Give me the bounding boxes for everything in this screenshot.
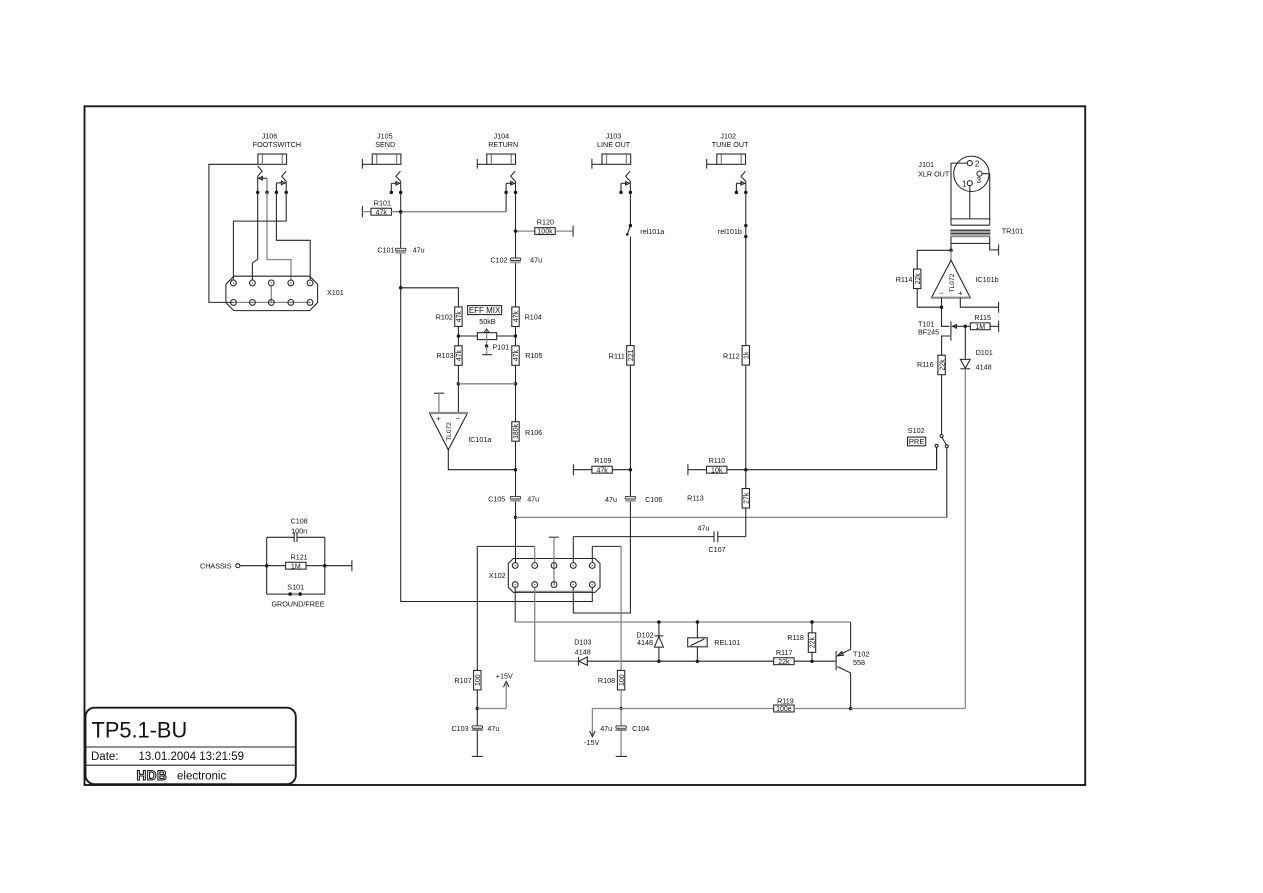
svg-text:27k: 27k xyxy=(744,492,751,504)
svg-text:C101: C101 xyxy=(377,245,394,254)
svg-text:100n: 100n xyxy=(291,527,307,536)
svg-text:PRE: PRE xyxy=(909,437,925,446)
wire rel101b to R112 xyxy=(745,237,747,346)
switch J106 tip contact xyxy=(258,166,263,176)
wire IC101b inverting input down xyxy=(941,298,943,308)
junction R118 bottom xyxy=(810,659,814,663)
wire feedback to R114 xyxy=(917,250,951,269)
svg-text:TL072: TL072 xyxy=(446,422,453,441)
svg-text:47u: 47u xyxy=(600,724,612,733)
transformer TR101 secondary xyxy=(951,236,990,243)
connector J101 XLR body xyxy=(954,156,989,191)
svg-text:SEND: SEND xyxy=(375,140,395,149)
wire -15V rail to D101 column xyxy=(851,708,966,710)
svg-text:rel101a: rel101a xyxy=(640,227,664,236)
junction R118 top xyxy=(810,620,814,624)
svg-text:HDB: HDB xyxy=(137,768,168,783)
svg-text:XLR OUT: XLR OUT xyxy=(918,170,950,179)
X102 pins xyxy=(512,563,518,569)
wire C106 to X102 pin 4 xyxy=(573,502,630,613)
svg-text:rel101b: rel101b xyxy=(718,227,742,236)
junction node I xyxy=(514,468,518,472)
svg-text:−: − xyxy=(939,289,944,298)
svg-text:47u: 47u xyxy=(413,245,425,254)
wire D101 down to -15V rail xyxy=(964,369,966,709)
jack J106 xyxy=(258,154,287,164)
XLR housing left xyxy=(950,163,952,219)
wire chassis to ground tick xyxy=(325,565,352,567)
svg-text:C103: C103 xyxy=(451,724,468,733)
wire R113 down to C107 line xyxy=(745,508,747,537)
svg-text:3: 3 xyxy=(976,176,981,185)
svg-text:47k: 47k xyxy=(513,311,520,323)
svg-text:FOOTSWITCH: FOOTSWITCH xyxy=(253,140,301,149)
wire node K to S102 left contact xyxy=(746,469,937,471)
wire C101 to node C xyxy=(400,254,402,288)
svg-text:TR101: TR101 xyxy=(1002,227,1024,236)
wire X102 pin 7 down to D103 xyxy=(535,588,579,662)
svg-text:22k: 22k xyxy=(778,659,790,666)
wire D103 to D102/REL101/R117 xyxy=(587,660,774,662)
wire node L to S102 xyxy=(516,516,947,518)
svg-text:100: 100 xyxy=(475,674,482,686)
connector X102 body xyxy=(508,559,600,593)
junction R120/J104 xyxy=(514,229,518,233)
potentiometer P101 50kB xyxy=(458,335,477,337)
svg-text:R118: R118 xyxy=(787,633,804,642)
svg-text:TUNE OUT: TUNE OUT xyxy=(712,140,749,149)
svg-text:S102: S102 xyxy=(908,426,925,435)
svg-text:IC101a: IC101a xyxy=(468,435,491,444)
wire X101 bottom bus xyxy=(233,301,310,303)
svg-text:47k: 47k xyxy=(596,467,608,474)
junction chassis left xyxy=(265,564,269,568)
svg-text:47k: 47k xyxy=(513,349,520,361)
wire X102 bottom bus xyxy=(515,590,592,592)
svg-text:47u: 47u xyxy=(530,256,542,265)
svg-text:D103: D103 xyxy=(574,637,591,646)
svg-text:R102: R102 xyxy=(436,312,453,321)
svg-text:R101: R101 xyxy=(374,199,391,208)
op-amp IC101a TL072 xyxy=(429,413,467,450)
relay supply rail xyxy=(515,621,850,623)
junction node G xyxy=(457,382,461,386)
switch J102 contact xyxy=(741,171,746,181)
junction R101/J105 xyxy=(399,210,403,214)
svg-text:R121: R121 xyxy=(291,552,308,561)
page border frame xyxy=(85,106,1086,785)
junction inverting node xyxy=(940,305,944,309)
svg-text:47u: 47u xyxy=(698,523,710,532)
svg-text:47u: 47u xyxy=(605,495,617,504)
svg-text:R111: R111 xyxy=(609,351,625,360)
wire SEND column down to X102 pin 10 xyxy=(401,288,593,602)
svg-text:-15V: -15V xyxy=(584,738,599,747)
wire T101 source to R116 xyxy=(942,336,950,355)
svg-text:IC101b: IC101b xyxy=(975,275,998,284)
wire rel101a to R111 xyxy=(629,237,631,346)
svg-text:RETURN: RETURN xyxy=(488,140,518,149)
power +15V arrow xyxy=(477,708,506,710)
transformer TR101 primary xyxy=(951,218,990,220)
svg-text:R104: R104 xyxy=(525,312,542,321)
wire R116 to S102 xyxy=(941,375,943,435)
junction node J xyxy=(629,468,633,472)
svg-text:180k: 180k xyxy=(513,423,520,438)
svg-text:Date:: Date: xyxy=(91,751,119,763)
svg-text:R110: R110 xyxy=(709,456,726,465)
svg-text:+15V: +15V xyxy=(496,671,513,680)
wire C102 to R104 xyxy=(515,263,517,307)
svg-text:1M: 1M xyxy=(975,324,985,331)
svg-text:J101: J101 xyxy=(918,160,934,169)
svg-text:X102: X102 xyxy=(489,571,506,580)
rail stub above IC101a non-inverting input xyxy=(434,392,444,394)
svg-text:LINE OUT: LINE OUT xyxy=(597,140,631,149)
ground stub above X102 pin 3 xyxy=(549,536,559,538)
wire TR101 secondary left to feedback node xyxy=(950,243,952,250)
svg-text:558: 558 xyxy=(853,658,865,667)
svg-text:47k: 47k xyxy=(456,311,463,323)
svg-text:TL072: TL072 xyxy=(949,273,956,292)
junction R108 bottom xyxy=(619,707,623,711)
svg-text:EFF MIX: EFF MIX xyxy=(469,306,501,315)
junction TR101/IC101b output xyxy=(949,249,953,253)
svg-text:100: 100 xyxy=(619,674,626,686)
junction R107 bottom xyxy=(476,707,480,711)
svg-text:+: + xyxy=(958,289,963,298)
wire node C to R102 xyxy=(401,288,459,307)
wire X101 pin 3 link xyxy=(270,286,272,303)
svg-text:47k: 47k xyxy=(376,209,388,216)
svg-text:100k: 100k xyxy=(537,229,553,236)
jack J102 xyxy=(706,159,708,169)
wire J106 contact 4 to X101 pin 1 xyxy=(233,192,286,280)
svg-text:electronic: electronic xyxy=(177,771,226,783)
svg-text:S101: S101 xyxy=(287,583,304,592)
wire J103 down to rel101a xyxy=(629,194,631,226)
svg-text:GROUND/FREE: GROUND/FREE xyxy=(271,600,324,609)
wire J105 tip down to R101 node xyxy=(400,194,402,212)
ground below C104 xyxy=(620,731,622,757)
svg-text:D101: D101 xyxy=(976,348,993,357)
svg-text:R117: R117 xyxy=(776,648,793,657)
wire X102 pin 6 down to relay rail xyxy=(514,588,516,622)
svg-text:22k: 22k xyxy=(810,636,817,648)
junction D102 bottom xyxy=(657,659,661,663)
svg-text:4148: 4148 xyxy=(976,363,992,372)
chassis network right branch xyxy=(324,537,326,594)
jack J104 xyxy=(476,159,478,169)
connector X101 body xyxy=(226,276,318,310)
svg-text:47u: 47u xyxy=(487,724,499,733)
junction node K xyxy=(744,468,748,472)
svg-text:R119: R119 xyxy=(777,697,794,706)
wire R103 down to node G xyxy=(457,365,459,384)
junction T102 emitter on -15V rail xyxy=(849,707,853,711)
svg-text:R105: R105 xyxy=(525,351,542,360)
svg-text:22k: 22k xyxy=(939,359,946,371)
svg-text:C102: C102 xyxy=(490,256,507,265)
svg-text:4148: 4148 xyxy=(637,638,653,647)
svg-text:22k: 22k xyxy=(915,273,922,285)
svg-text:R109: R109 xyxy=(594,456,611,465)
junction D102 top xyxy=(657,620,661,624)
svg-text:100e: 100e xyxy=(776,706,792,713)
wire link G-H xyxy=(458,383,515,385)
wire C105 to node L xyxy=(515,502,517,518)
junction T101 drain node xyxy=(964,325,968,329)
svg-text:47u: 47u xyxy=(527,495,539,504)
wire J102 down to rel101b xyxy=(745,194,747,226)
svg-text:C105: C105 xyxy=(488,495,505,504)
junction node H xyxy=(514,382,518,386)
svg-text:1: 1 xyxy=(962,180,967,189)
svg-text:2: 2 xyxy=(975,159,980,168)
svg-text:13.01.2004 13:21:59: 13.01.2004 13:21:59 xyxy=(139,751,245,763)
jack J105 xyxy=(361,159,363,169)
title block frame xyxy=(86,708,296,785)
wire J104 tip down xyxy=(515,194,517,231)
wire R106 to node I xyxy=(515,441,517,470)
junction chassis right xyxy=(323,564,327,568)
relay contact rel101a xyxy=(629,224,632,227)
junction REL101 top xyxy=(696,620,700,624)
svg-text:REL101: REL101 xyxy=(714,638,740,647)
junction node E xyxy=(514,334,518,338)
jack J103 xyxy=(591,159,593,169)
wire R107 to X102 pin 2 xyxy=(477,545,534,547)
label EFF MIX xyxy=(468,306,502,315)
svg-text:1k: 1k xyxy=(744,351,751,359)
wire node L to X102 pin 1 xyxy=(515,517,517,562)
wire R112 to node K xyxy=(745,365,747,469)
svg-text:R116: R116 xyxy=(917,360,934,369)
svg-text:R113: R113 xyxy=(687,494,704,503)
svg-text:50kB: 50kB xyxy=(479,317,496,326)
op-amp IC101b TL072 xyxy=(950,250,952,260)
switch J106 ring contact xyxy=(282,171,287,181)
junction node C xyxy=(399,286,403,290)
transformer TR101 core xyxy=(950,230,990,232)
junction node D xyxy=(457,334,461,338)
wire X102 pin 4 up stub xyxy=(572,537,574,563)
XLR housing right xyxy=(989,174,991,219)
svg-text:R108: R108 xyxy=(598,676,615,685)
wire IC101a output to node I xyxy=(448,450,515,470)
chassis terminal xyxy=(236,564,240,568)
wire J106 sleeve to X101 bottom bus xyxy=(209,164,258,302)
svg-text:10k: 10k xyxy=(711,467,723,474)
svg-text:1M: 1M xyxy=(291,563,301,570)
wire TR101 secondary right to tick xyxy=(990,243,999,250)
wire J106 contact 2 to X101 pin 4 xyxy=(267,192,291,280)
junction node L xyxy=(514,516,518,520)
switch J104 contact xyxy=(511,171,516,181)
svg-text:R103: R103 xyxy=(436,351,453,360)
svg-text:C108: C108 xyxy=(291,517,308,526)
svg-text:221: 221 xyxy=(628,349,635,361)
ground below C103 xyxy=(476,731,478,757)
svg-text:C104: C104 xyxy=(632,724,649,733)
svg-text:BF245: BF245 xyxy=(918,328,939,337)
wire R104 to P101 node E xyxy=(515,326,517,336)
svg-text:R106: R106 xyxy=(525,428,542,437)
switch J103 contact xyxy=(626,171,631,181)
svg-text:R112: R112 xyxy=(723,351,740,360)
svg-text:P101: P101 xyxy=(493,343,510,352)
wire R105 down to node H xyxy=(515,365,517,384)
svg-text:X101: X101 xyxy=(327,288,344,297)
switch J105 contact xyxy=(396,171,401,181)
svg-text:CHASSIS: CHASSIS xyxy=(200,562,232,571)
svg-text:R107: R107 xyxy=(454,676,471,685)
junction REL101 bottom xyxy=(696,659,700,663)
wire S102 left contact to R110 rail xyxy=(936,447,938,469)
wire R101 to J104 switch contact xyxy=(392,211,507,213)
svg-text:R120: R120 xyxy=(537,217,554,226)
wire inverting node to T101 gate xyxy=(942,307,950,326)
X101 pins xyxy=(231,280,237,286)
svg-text:+: + xyxy=(436,414,441,423)
svg-text:C106: C106 xyxy=(645,495,662,504)
wire J106 contact 1 to X101 pin 2 xyxy=(252,192,257,280)
wire R114 to inverting node xyxy=(917,288,941,307)
wire IC101b non-inverting input to tick xyxy=(960,298,998,308)
power -15V arrow xyxy=(592,709,621,736)
wire R102 to P101 node D xyxy=(457,326,459,336)
svg-text:R115: R115 xyxy=(974,313,991,322)
wire J106 contact 3 to X101 pin 5 xyxy=(276,192,310,280)
svg-text:C107: C107 xyxy=(708,545,725,554)
wire X102 pin 5 to R108 column xyxy=(591,546,593,562)
wire R111 to node J xyxy=(629,365,631,469)
relay contact rel101b xyxy=(745,226,747,237)
chassis network left branch xyxy=(266,537,268,594)
wiper ground of P101 xyxy=(486,346,488,355)
wire node G to IC101a inverting input xyxy=(457,384,459,413)
svg-text:TP5.1-BU: TP5.1-BU xyxy=(92,718,188,743)
svg-text:R114: R114 xyxy=(896,275,913,284)
svg-text:4148: 4148 xyxy=(575,648,591,657)
svg-text:47k: 47k xyxy=(456,349,463,361)
svg-text:−: − xyxy=(456,414,461,423)
